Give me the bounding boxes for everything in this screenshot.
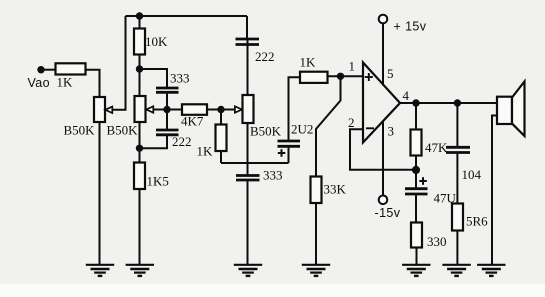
capacitor 104 <box>446 147 470 152</box>
node dot pot2 bottom / C222 <box>136 145 143 152</box>
wire 10K bottom to node <box>139 55 141 70</box>
svg-text:1K5: 1K5 <box>147 174 169 189</box>
wire C104 to 5R6 <box>456 153 458 204</box>
node dot top bus / 10K <box>136 12 143 19</box>
wire C2U2 top to 1K right <box>289 77 301 140</box>
wire node to C47U <box>415 170 417 188</box>
wire 1K mid bottom to bus163 <box>220 151 222 163</box>
wire pot1 bottom to ground <box>99 122 101 264</box>
node dot feedback <box>412 166 420 174</box>
wire 5R6 bottom to ground <box>456 232 458 265</box>
wire C333 bottom to ground <box>247 181 249 265</box>
svg-text:B50K: B50K <box>64 123 96 138</box>
svg-text:3: 3 <box>388 124 395 139</box>
pin 3 wire (V-) <box>382 122 384 196</box>
wire 4K7 to pot3 wiper <box>207 109 235 111</box>
wire 47K bottom to feedback node <box>415 156 417 171</box>
wire node to 1K mid top <box>220 110 222 125</box>
wire top bus <box>126 15 248 17</box>
wire node to C104 <box>456 103 458 147</box>
wire node to C222 top <box>166 110 168 130</box>
wire pot2 top <box>139 69 141 96</box>
speaker LS1 <box>497 82 525 137</box>
wire node to C333 top <box>140 69 168 87</box>
capacitor 222 (top right) <box>236 39 260 45</box>
resistor 1K (middle) <box>216 125 227 152</box>
ground G6 <box>442 265 470 276</box>
svg-text:333: 333 <box>170 71 190 86</box>
svg-text:222: 222 <box>255 49 275 64</box>
capacitor 333 (upper) <box>156 88 179 92</box>
op-amp minus input mark <box>366 127 374 129</box>
potentiometer B50K P1 body <box>94 97 105 122</box>
wire pot2 bottom <box>139 122 141 163</box>
wire speaker return <box>492 116 497 265</box>
wire pot2 wiper to 4K7 <box>153 109 182 111</box>
svg-text:-15v: -15v <box>375 206 401 220</box>
wire 33K bottom to ground <box>315 203 317 264</box>
wire C333 bottom to wiper line <box>166 93 168 110</box>
resistor 330 <box>411 223 422 248</box>
capacitor 333 (bottom) <box>236 176 260 181</box>
svg-text:5: 5 <box>387 66 394 81</box>
resistor 1K (input) <box>56 63 86 74</box>
svg-text:33K: 33K <box>324 182 347 197</box>
polarity plus 2U2 <box>278 149 286 157</box>
potentiometer B50K P2 body <box>135 96 146 122</box>
svg-text:2: 2 <box>348 115 355 130</box>
node dot output / zobel <box>454 99 461 106</box>
svg-text:Vao: Vao <box>28 76 51 90</box>
+15v terminal <box>379 15 388 24</box>
pin 5 wire (V+) <box>382 24 384 86</box>
svg-text:1K: 1K <box>197 144 214 159</box>
ground G7 <box>477 265 505 276</box>
svg-text:47K: 47K <box>425 140 448 155</box>
ground G2 <box>126 265 154 276</box>
svg-text:222: 222 <box>172 134 192 149</box>
svg-text:1K: 1K <box>57 75 74 90</box>
wire C47U to 330 <box>415 195 417 223</box>
wire bus163 up to C2U2 <box>288 147 290 163</box>
bottom white band <box>0 284 545 297</box>
resistor 33K <box>311 177 322 204</box>
node dot 10K/pot2/C333 <box>136 65 143 72</box>
capacitor 47U <box>405 189 428 194</box>
svg-text:2U2: 2U2 <box>291 122 313 137</box>
svg-text:B50K: B50K <box>107 123 139 138</box>
svg-text:+ 15v: + 15v <box>394 20 427 34</box>
pot2 wiper arrow <box>146 106 153 112</box>
svg-text:1K: 1K <box>300 55 317 70</box>
-15v terminal <box>379 196 388 205</box>
potentiometer B50K P3 body <box>243 95 254 123</box>
pin 2 wire / feedback to node <box>350 129 416 170</box>
wire 10K top <box>139 16 141 29</box>
svg-text:104: 104 <box>462 167 482 182</box>
resistor 1K5 <box>134 163 145 190</box>
pot3 wiper arrow <box>235 106 242 112</box>
wire bus y163 <box>221 162 289 164</box>
node dot wiper2/C333/C222 <box>163 106 170 113</box>
ground G4 <box>302 265 330 276</box>
resistor 4K7 <box>182 104 207 115</box>
svg-text:1: 1 <box>349 59 356 74</box>
polarity plus 47U <box>419 177 427 185</box>
svg-text:10K: 10K <box>145 34 168 49</box>
wire pot3 bottom <box>247 123 249 175</box>
wire C222 bottom to pot2 branch <box>140 136 168 149</box>
node dot output / 47K <box>412 99 419 106</box>
svg-text:333: 333 <box>263 168 283 183</box>
capacitor 2U2 <box>278 141 301 146</box>
wire op-amp output to speaker <box>400 102 497 104</box>
input terminal Vao <box>37 66 44 73</box>
wire C222 top to top bus corner <box>246 16 248 39</box>
svg-text:330: 330 <box>427 234 447 249</box>
wire input to R 1K <box>44 69 56 71</box>
wire 1K to op-amp pin1 <box>328 75 364 77</box>
svg-text:5R6: 5R6 <box>466 214 488 229</box>
capacitor 222 (left) <box>156 130 179 135</box>
resistor 10K <box>134 29 145 55</box>
ground G1 <box>86 265 114 276</box>
node dot pin1 <box>337 73 344 80</box>
ground G3 <box>234 265 262 276</box>
pot1 wiper arrow <box>105 107 112 113</box>
wire pot3 top to C222 right <box>247 40 249 95</box>
wire pin1 node to 33K (diagonal) <box>316 76 341 176</box>
svg-text:B50K: B50K <box>250 124 282 139</box>
ground G5 <box>402 265 430 276</box>
wire 330 bottom to ground <box>416 248 418 265</box>
svg-text:4: 4 <box>403 88 410 103</box>
resistor 1K (top right) <box>300 72 328 83</box>
op-amp plus input mark <box>365 73 373 81</box>
op-amp U1 triangle <box>363 63 400 143</box>
svg-text:4K7: 4K7 <box>181 114 204 129</box>
wire 1K5 bottom to ground <box>139 189 141 264</box>
wire output to 47K <box>415 103 417 130</box>
resistor 5R6 <box>452 204 463 231</box>
node dot 4K7 / 1K mid <box>217 106 224 113</box>
wire 1K to pot1 top <box>86 70 100 97</box>
resistor 47K <box>411 130 422 156</box>
wire pot1 wiper to top bus <box>112 16 126 110</box>
